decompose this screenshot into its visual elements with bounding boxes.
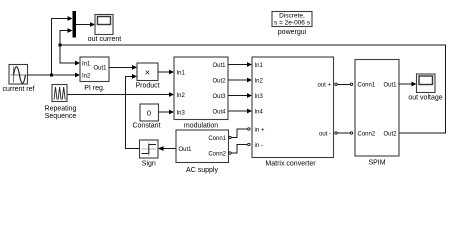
scope out current xyxy=(88,15,122,44)
subsystem SPIM xyxy=(355,60,399,167)
wire matrix out- to SPIM Conn2 xyxy=(338,132,351,134)
feedback wire from SPIM Out2 xyxy=(60,45,446,133)
svg-text:In2: In2 xyxy=(177,93,186,99)
svg-text:In1: In1 xyxy=(255,63,264,69)
svg-text:Out1: Out1 xyxy=(212,63,226,69)
port circle SPIM Conn1 xyxy=(350,83,352,85)
svg-text:In2: In2 xyxy=(255,78,264,84)
wire AC supply Out1 to sign input xyxy=(163,148,176,150)
svg-text:Matrix converter: Matrix converter xyxy=(265,161,316,168)
svg-text:in -: in - xyxy=(255,143,263,149)
scope out voltage xyxy=(408,74,442,102)
svg-text:Out2: Out2 xyxy=(212,78,226,84)
port circle SPIM Conn2 xyxy=(350,132,352,134)
wire constant to modulation In3 xyxy=(159,111,171,113)
svg-text:s = 2e-006 s: s = 2e-006 s xyxy=(274,20,311,27)
wire AC Conn2 to matrix in- xyxy=(232,145,248,154)
wire modulation Out1 to matrix In1 xyxy=(228,64,248,66)
wire mux to out current scope xyxy=(76,24,91,26)
svg-text:out +: out + xyxy=(317,83,331,89)
sine source current ref xyxy=(3,65,35,94)
svg-text:modulation: modulation xyxy=(184,123,218,130)
svg-text:Product: Product xyxy=(135,83,159,90)
port circle matrix out- xyxy=(335,132,337,134)
svg-text:Conn1: Conn1 xyxy=(358,83,376,89)
svg-text:In1: In1 xyxy=(82,61,91,67)
wire matrix out+ to SPIM Conn1 xyxy=(338,83,351,85)
svg-text:In3: In3 xyxy=(177,110,186,116)
repeating sequence xyxy=(45,85,77,121)
svg-text:in +: in + xyxy=(255,127,265,133)
svg-text:×: × xyxy=(145,68,150,78)
product P1 xyxy=(135,63,159,90)
svg-text:out voltage: out voltage xyxy=(408,95,442,102)
svg-text:0: 0 xyxy=(147,109,151,118)
wire repeating sequence to modulation In2 xyxy=(67,94,170,96)
subsystem Matrix converter xyxy=(252,57,334,168)
svg-text:Out3: Out3 xyxy=(212,94,226,100)
node junction on current ref wire xyxy=(50,74,53,77)
svg-text:Out4: Out4 xyxy=(212,109,226,115)
mux xyxy=(73,11,77,38)
wire modulation Out2 to matrix In2 xyxy=(228,79,248,81)
subsystem AC supply xyxy=(176,130,229,174)
svg-text:Constant: Constant xyxy=(132,123,160,130)
wire PI Out1 to product in1 xyxy=(109,66,133,68)
svg-text:Out1: Out1 xyxy=(179,147,193,153)
wire sine to PI In2 xyxy=(28,74,77,76)
port circle AC Conn1 xyxy=(229,136,231,138)
wire product to modulation In1 xyxy=(158,71,170,73)
svg-text:In2: In2 xyxy=(82,73,91,79)
wire sign output up to product in2 xyxy=(126,76,140,148)
sign block xyxy=(140,140,159,168)
svg-text:Discrete,: Discrete, xyxy=(279,13,305,20)
svg-text:Conn2: Conn2 xyxy=(358,132,376,138)
wire modulation Out3 to matrix In3 xyxy=(228,95,248,97)
wire feedback down to PI In1 xyxy=(60,45,77,63)
port circle matrix out+ xyxy=(335,83,337,85)
svg-text:In1: In1 xyxy=(177,70,186,76)
wire AC Conn1 to matrix in+ xyxy=(232,129,248,138)
node feedback junction xyxy=(59,44,62,47)
svg-text:Sequence: Sequence xyxy=(45,113,77,120)
wire feedback up to mux in2 xyxy=(60,31,69,46)
svg-text:SPIM: SPIM xyxy=(368,160,385,167)
svg-text:out -: out - xyxy=(319,132,331,138)
svg-text:Out2: Out2 xyxy=(383,132,397,138)
svg-text:Out1: Out1 xyxy=(383,83,397,89)
svg-text:Sign: Sign xyxy=(142,161,156,168)
svg-text:In4: In4 xyxy=(255,109,264,115)
port circle matrix in+ xyxy=(248,128,250,130)
svg-text:Conn1: Conn1 xyxy=(208,136,226,142)
svg-text:In3: In3 xyxy=(255,94,264,100)
wire branch up to mux in1 xyxy=(52,19,69,76)
constant 0 xyxy=(132,104,160,130)
svg-text:Conn2: Conn2 xyxy=(208,152,226,158)
svg-text:powergui: powergui xyxy=(278,29,307,36)
svg-text:Repeating: Repeating xyxy=(45,106,77,113)
svg-text:AC supply: AC supply xyxy=(186,167,218,174)
svg-text:PI reg.: PI reg. xyxy=(84,85,105,92)
wire SPIM Out1 to out voltage scope xyxy=(399,83,413,85)
svg-text:Out1: Out1 xyxy=(93,66,107,72)
port circle AC Conn2 xyxy=(229,152,231,154)
powergui block xyxy=(272,12,312,37)
svg-text:current ref: current ref xyxy=(3,86,35,93)
svg-text:out current: out current xyxy=(88,36,122,43)
port circle matrix in- xyxy=(248,143,250,145)
subsystem modulation xyxy=(174,57,228,130)
subsystem PI reg xyxy=(80,57,109,92)
wire modulation Out4 to matrix In4 xyxy=(228,110,248,112)
